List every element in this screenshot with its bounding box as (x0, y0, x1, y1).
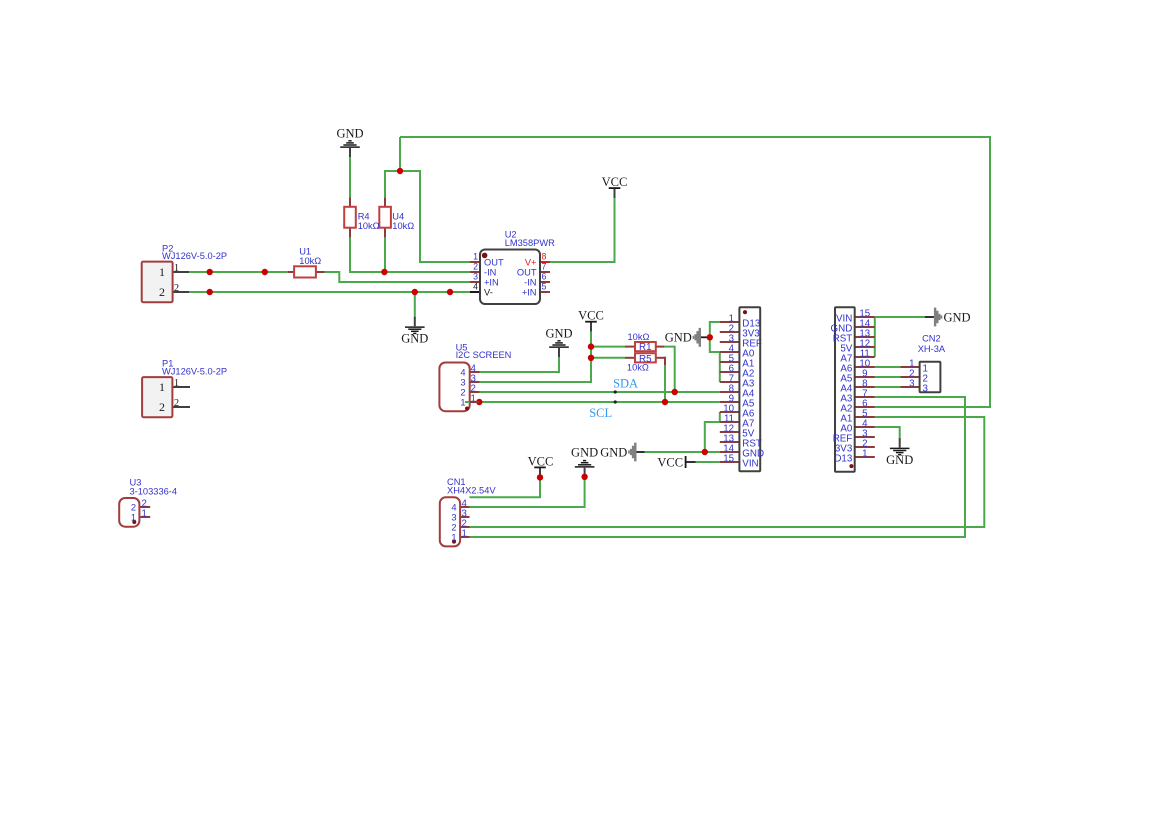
svg-text:2: 2 (174, 398, 179, 409)
svg-text:2: 2 (159, 400, 165, 414)
svg-text:+IN: +IN (522, 287, 537, 297)
svg-text:XH-3A: XH-3A (918, 344, 946, 354)
svg-text:2: 2 (473, 262, 478, 272)
svg-text:3: 3 (923, 383, 929, 394)
svg-text:VIN: VIN (742, 458, 758, 469)
svg-text:1: 1 (460, 397, 465, 407)
svg-text:3: 3 (451, 512, 456, 522)
svg-text:4: 4 (451, 502, 456, 512)
svg-text:LM358PWR: LM358PWR (505, 238, 555, 248)
svg-text:V+: V+ (525, 257, 537, 267)
svg-text:2: 2 (174, 283, 179, 294)
svg-text:VCC: VCC (657, 455, 683, 469)
svg-text:3-103336-4: 3-103336-4 (130, 486, 178, 496)
svg-text:6: 6 (542, 272, 547, 282)
svg-text:GND: GND (600, 445, 627, 459)
svg-text:1: 1 (159, 265, 165, 279)
svg-text:GND: GND (336, 127, 363, 141)
svg-text:1: 1 (174, 378, 179, 389)
svg-text:10kΩ: 10kΩ (299, 256, 321, 266)
svg-text:1: 1 (131, 512, 136, 522)
svg-text:10kΩ: 10kΩ (358, 221, 380, 231)
svg-text:GND: GND (886, 453, 913, 467)
svg-text:CN2: CN2 (922, 333, 941, 343)
svg-text:1: 1 (159, 380, 165, 394)
svg-text:I2C SCREEN: I2C SCREEN (456, 350, 512, 360)
svg-text:VCC: VCC (528, 454, 554, 468)
svg-text:R5: R5 (639, 354, 652, 365)
svg-text:WJ126V-5.0-2P: WJ126V-5.0-2P (162, 366, 227, 376)
svg-text:3: 3 (909, 379, 914, 390)
svg-text:R4: R4 (358, 212, 370, 222)
svg-text:VCC: VCC (578, 309, 604, 323)
svg-text:D13: D13 (834, 453, 853, 464)
svg-text:OUT: OUT (484, 257, 504, 267)
svg-text:3: 3 (460, 377, 465, 387)
svg-text:+IN: +IN (484, 277, 499, 287)
svg-text:15: 15 (723, 454, 734, 465)
svg-text:2: 2 (159, 285, 165, 299)
svg-text:2: 2 (460, 387, 465, 397)
svg-text:1: 1 (462, 528, 467, 539)
svg-text:4: 4 (460, 367, 465, 377)
svg-text:5: 5 (542, 282, 547, 292)
svg-text:VCC: VCC (602, 175, 628, 189)
svg-text:-IN: -IN (524, 277, 536, 287)
svg-text:1: 1 (142, 508, 147, 519)
svg-text:4: 4 (473, 282, 478, 292)
svg-text:U4: U4 (392, 212, 404, 222)
svg-text:GND: GND (944, 310, 971, 324)
svg-text:7: 7 (542, 262, 547, 272)
svg-text:SDA: SDA (613, 376, 638, 390)
svg-text:SCL: SCL (589, 406, 612, 420)
svg-text:1: 1 (451, 532, 456, 542)
svg-text:GND: GND (545, 327, 572, 341)
svg-text:2: 2 (451, 522, 456, 532)
svg-text:1: 1 (174, 263, 179, 274)
svg-text:GND: GND (665, 331, 692, 345)
svg-text:-IN: -IN (484, 267, 496, 277)
svg-text:WJ126V-5.0-2P: WJ126V-5.0-2P (162, 251, 227, 261)
svg-text:1: 1 (862, 449, 867, 460)
svg-text:8: 8 (542, 252, 547, 262)
svg-text:GND: GND (571, 445, 598, 459)
svg-text:V-: V- (484, 287, 493, 297)
svg-text:R1: R1 (639, 342, 652, 353)
svg-text:3: 3 (473, 272, 478, 282)
svg-text:GND: GND (401, 332, 428, 346)
svg-text:2: 2 (131, 502, 136, 512)
svg-text:1: 1 (473, 252, 478, 262)
svg-text:XH4X2.54V: XH4X2.54V (447, 485, 496, 495)
svg-text:10kΩ: 10kΩ (628, 332, 650, 342)
svg-text:OUT: OUT (517, 267, 537, 277)
svg-text:U1: U1 (299, 247, 311, 257)
svg-text:10kΩ: 10kΩ (392, 221, 414, 231)
svg-text:1: 1 (471, 393, 476, 404)
